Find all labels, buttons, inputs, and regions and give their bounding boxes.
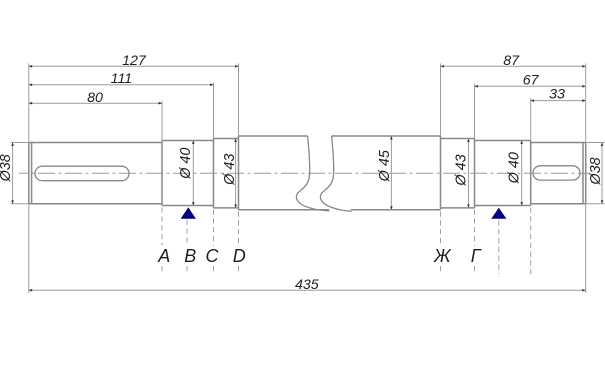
dimension Ø43 left xyxy=(222,139,238,208)
shaft section Ø38 left outline xyxy=(29,143,162,204)
svg-text:Ø 45: Ø 45 xyxy=(377,149,393,182)
svg-text:111: 111 xyxy=(111,71,133,87)
shaft section Ø40 left outline xyxy=(162,141,214,206)
shaft section Ø43 right outline xyxy=(441,139,475,208)
svg-text:C: C xyxy=(206,246,220,266)
datum triangle left (B) xyxy=(181,207,196,219)
extension line left end vertical xyxy=(28,64,30,294)
svg-text:Ж: Ж xyxy=(433,246,452,266)
leader dashed line far right xyxy=(530,208,532,275)
svg-text:127: 127 xyxy=(122,53,147,69)
dimension Ø40 right xyxy=(507,141,523,206)
extension line step Ж x440.5 xyxy=(440,64,442,137)
datum triangle right xyxy=(491,208,506,219)
svg-text:Ø38: Ø38 xyxy=(0,154,14,182)
svg-text:67: 67 xyxy=(523,73,540,89)
svg-text:80: 80 xyxy=(87,90,103,106)
chamfer line right end xyxy=(582,143,584,204)
dimension Ø43 right xyxy=(453,139,469,208)
svg-text:33: 33 xyxy=(549,87,565,103)
dimension 80 xyxy=(29,90,162,106)
svg-text:Ø 43: Ø 43 xyxy=(222,154,238,186)
break line right xyxy=(320,136,351,211)
dimension Ø40 left xyxy=(178,141,195,206)
dimension Ø38 left xyxy=(0,143,29,204)
leader dashed line Г xyxy=(474,210,476,275)
chamfer line left end xyxy=(31,143,33,204)
leader dashed line A xyxy=(161,208,163,275)
svg-text:Ø38: Ø38 xyxy=(588,157,604,185)
dimension Ø45 middle xyxy=(377,136,393,210)
centerline axis xyxy=(19,172,589,174)
extension line step x530.7 xyxy=(530,98,532,140)
svg-text:D: D xyxy=(233,246,246,266)
svg-text:B: B xyxy=(184,246,196,266)
leader dashed line B xyxy=(186,220,188,274)
svg-text:435: 435 xyxy=(295,277,319,293)
keyway slot right xyxy=(533,166,580,180)
leader dashed line C xyxy=(213,210,215,275)
shaft section Ø38 right outline xyxy=(531,143,586,204)
keyway slot left xyxy=(35,166,129,181)
dimension 87 xyxy=(441,53,586,69)
leader dashed line right triangle xyxy=(498,221,500,275)
svg-text:Ø 40: Ø 40 xyxy=(507,152,523,184)
extension line right end vertical xyxy=(585,64,587,294)
shaft section Ø40 right outline xyxy=(475,141,531,206)
svg-text:87: 87 xyxy=(503,53,520,69)
dimension Ø38 right xyxy=(586,143,605,204)
leader dashed line Ж xyxy=(440,212,442,275)
svg-text:A: A xyxy=(157,246,170,266)
shaft section Ø45 outline with break gap xyxy=(239,136,441,210)
dimension 67 xyxy=(475,73,586,89)
dimension 127 xyxy=(29,53,239,69)
dimension 111 xyxy=(29,71,214,87)
svg-text:Ø 43: Ø 43 xyxy=(453,154,469,186)
extension line step C x213.5 xyxy=(213,82,215,138)
svg-text:Ø 40: Ø 40 xyxy=(178,148,194,180)
extension line step Г x474.5 xyxy=(474,84,476,139)
svg-text:Г: Г xyxy=(471,246,482,266)
shaft section Ø43 left outline xyxy=(214,139,239,208)
break line left xyxy=(296,136,329,211)
dimension 33 xyxy=(531,87,586,103)
extension line step D x238.5 xyxy=(238,64,240,137)
leader dashed line D xyxy=(238,212,240,275)
extension line step A x162 xyxy=(161,101,163,141)
dimension 435 overall xyxy=(29,277,586,293)
